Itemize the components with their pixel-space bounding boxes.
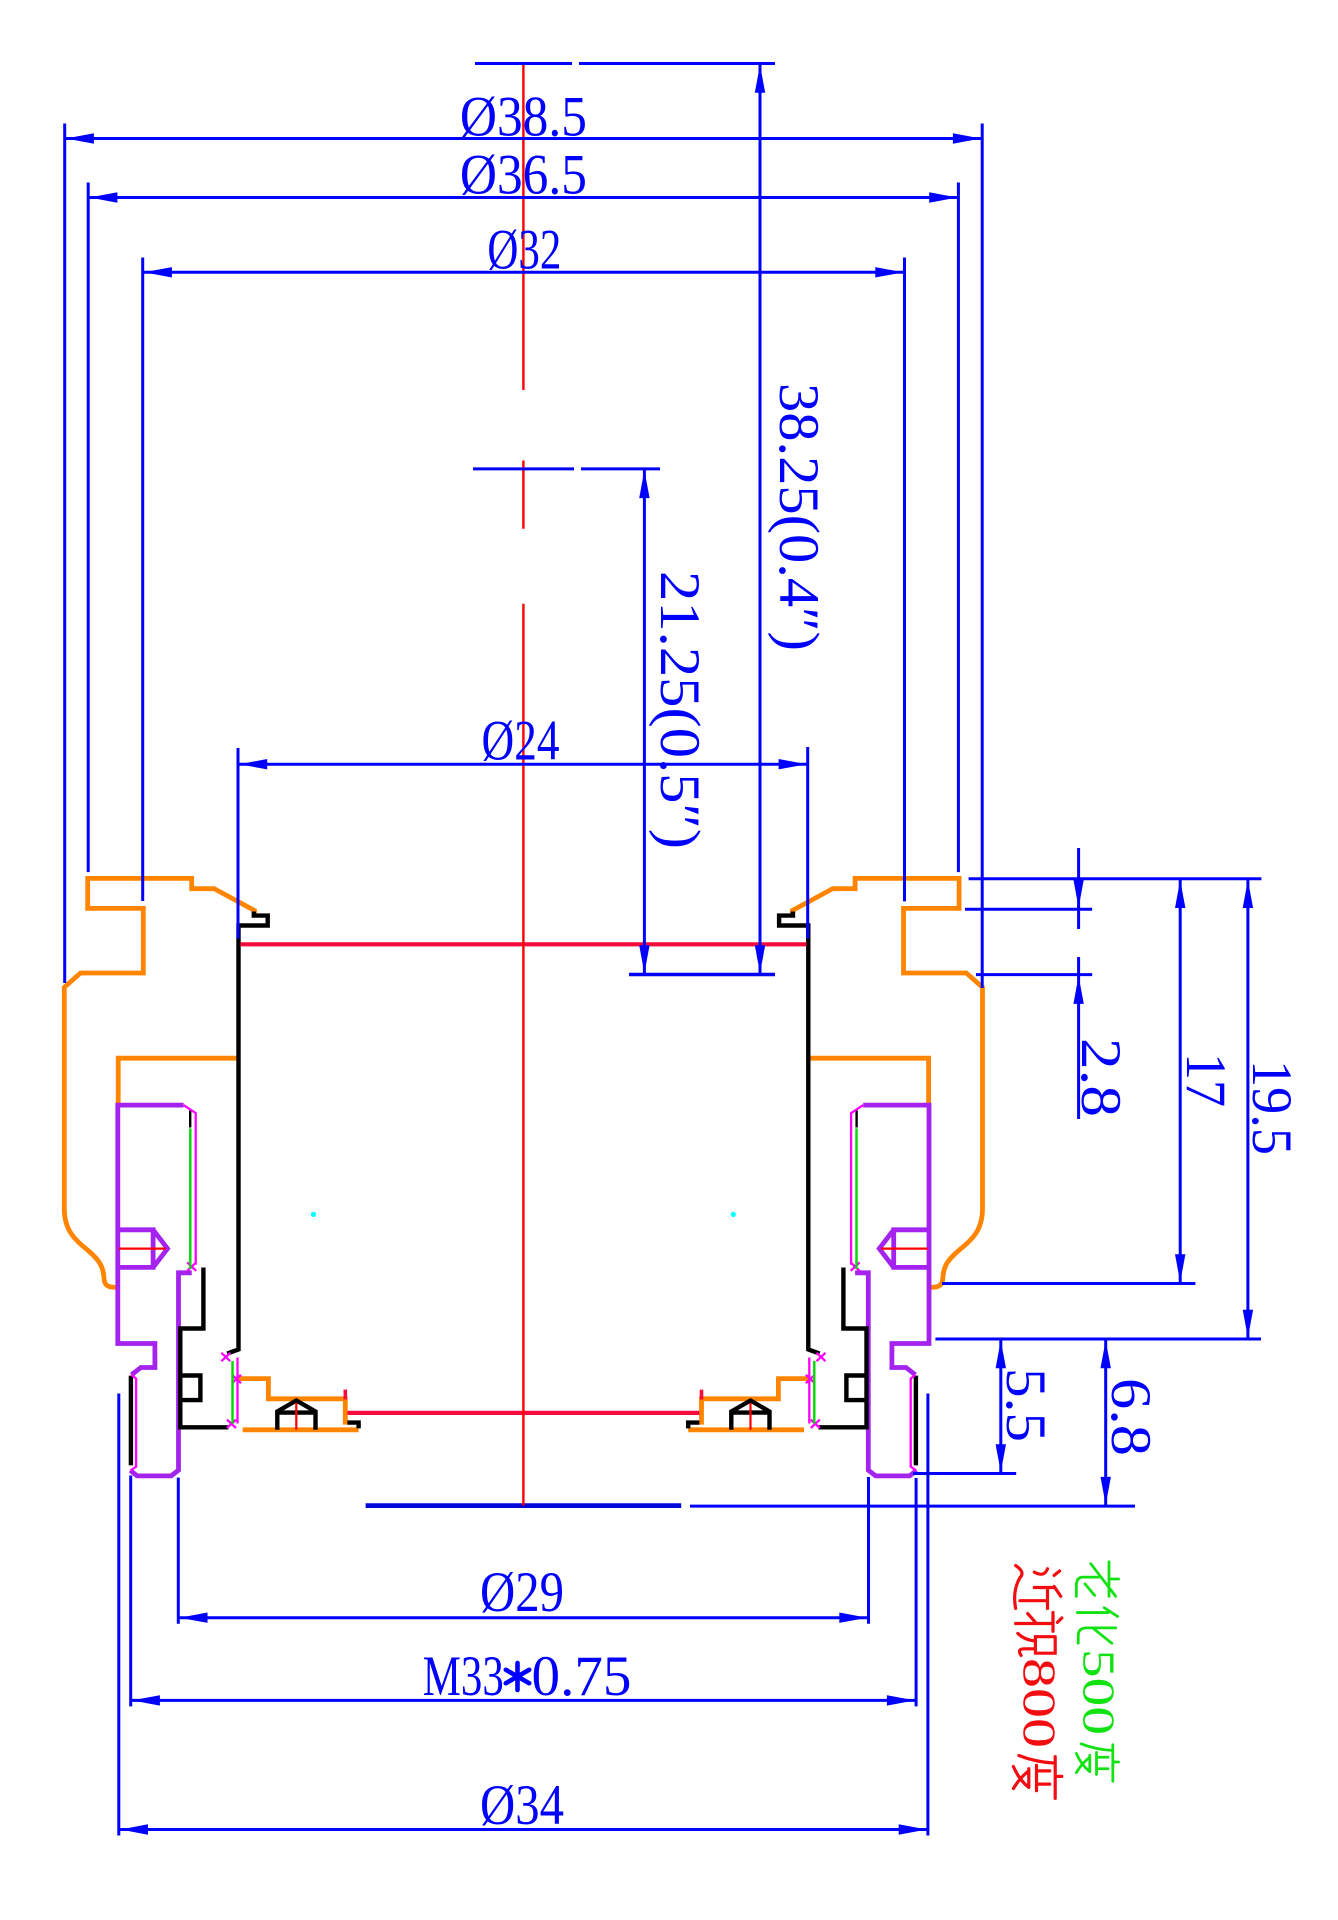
svg-text:21.25(0.5″): 21.25(0.5″)	[648, 571, 711, 849]
svg-text:2.8: 2.8	[1069, 1038, 1132, 1117]
svg-text:17: 17	[1174, 1053, 1237, 1107]
svg-text:500: 500	[1074, 1649, 1124, 1735]
svg-text:Ø36.5: Ø36.5	[460, 144, 587, 207]
svg-text:6.8: 6.8	[1099, 1378, 1162, 1456]
svg-text:Ø24: Ø24	[482, 710, 560, 773]
svg-text:Ø29: Ø29	[480, 1561, 564, 1624]
svg-text:Ø38.5: Ø38.5	[460, 86, 587, 149]
svg-text:0.75: 0.75	[532, 1645, 632, 1708]
svg-text:38.25(0.4″): 38.25(0.4″)	[767, 383, 830, 651]
svg-text:5.5: 5.5	[994, 1368, 1057, 1442]
svg-text:M33: M33	[423, 1645, 504, 1708]
svg-text:800: 800	[1013, 1658, 1065, 1748]
svg-text:Ø34: Ø34	[480, 1774, 564, 1837]
svg-text:Ø32: Ø32	[487, 219, 561, 282]
svg-text:19.5: 19.5	[1240, 1060, 1303, 1155]
